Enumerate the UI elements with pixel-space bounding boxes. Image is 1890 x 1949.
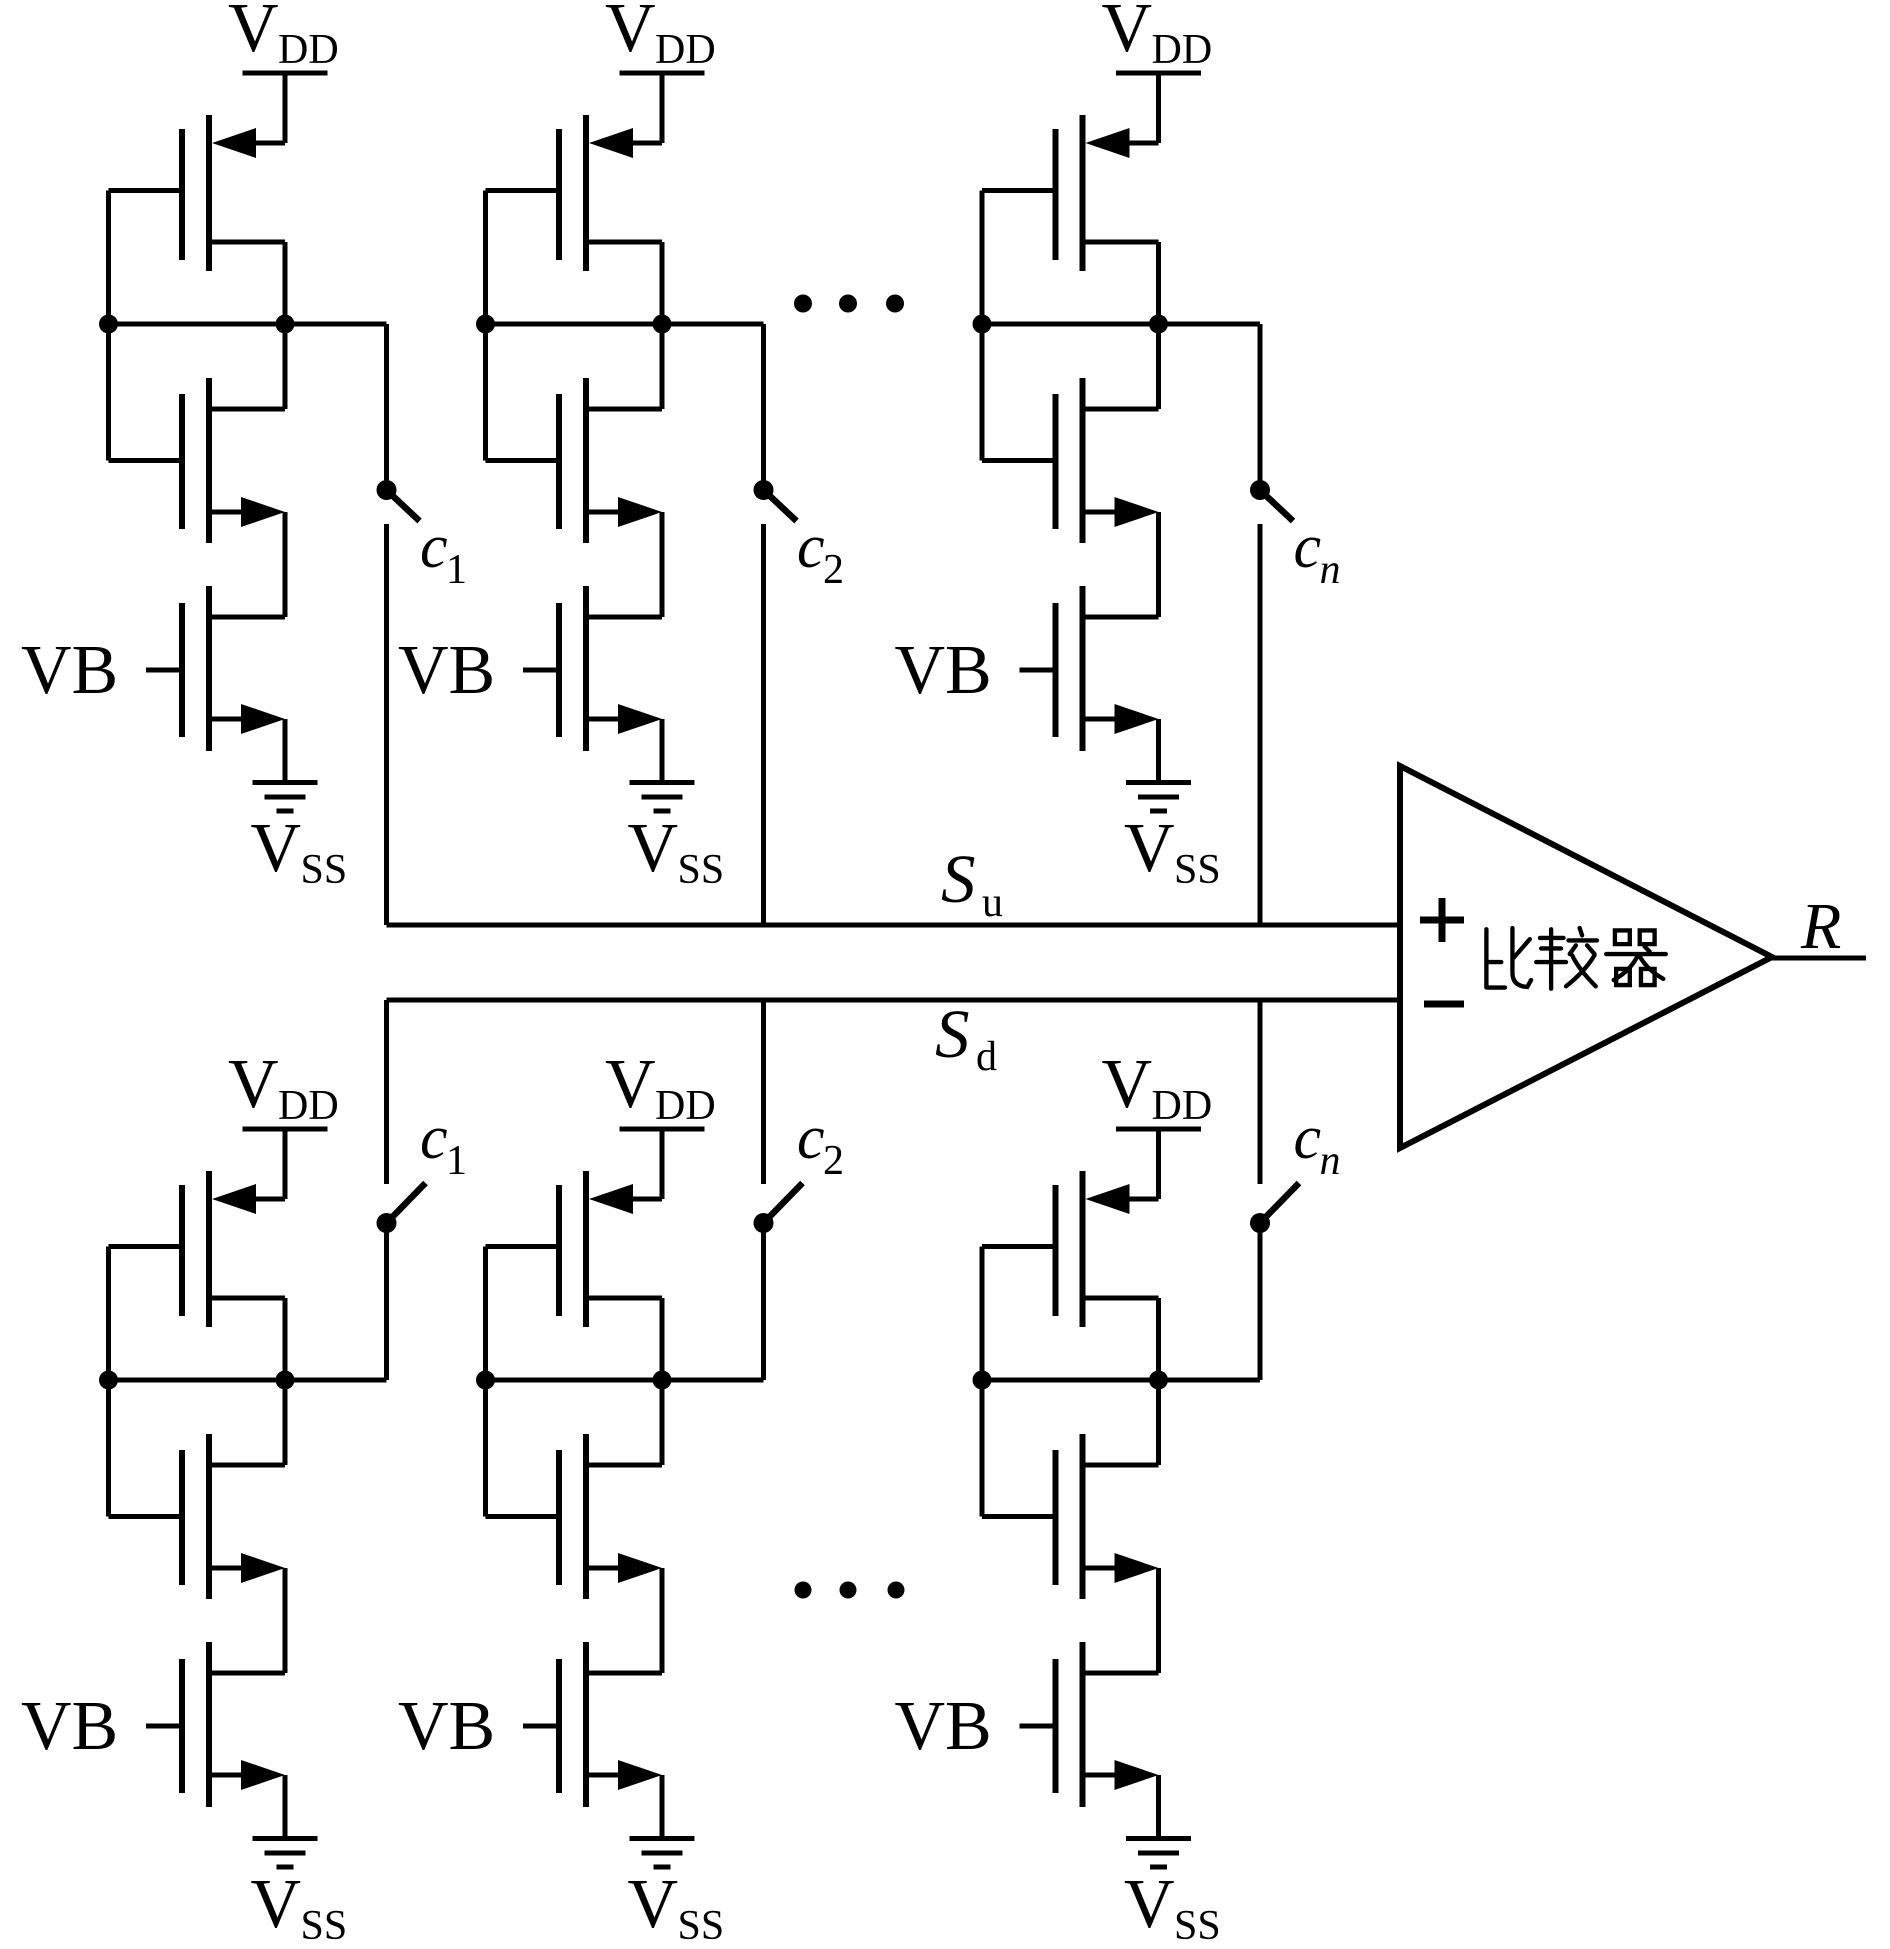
svg-text:SS: SS: [1174, 847, 1221, 893]
wire PMOS drain vertical (cell 3): [1156, 242, 1161, 409]
wire source to ground (cell 5): [660, 1775, 665, 1838]
VSS ground label (cell 5): [628, 1866, 725, 1949]
svg-text:VB: VB: [895, 1688, 992, 1765]
wire node row (cell 1): [109, 322, 387, 327]
VDD supply bar (cell 4): [243, 1127, 328, 1132]
NMOS bias transistor lower (cell 4): [182, 1642, 285, 1807]
wire source to ground (cell 1): [283, 719, 288, 782]
wire comparator output R: [1770, 956, 1866, 961]
wire VDD stem (cell 3): [1156, 73, 1161, 143]
comparator (op-amp triangle): [1400, 766, 1772, 1148]
wire switch to Su bus (cell 3): [1258, 524, 1263, 925]
wire PMOS gate-drain left vertical (cell 1): [106, 191, 111, 461]
svg-text:V: V: [1124, 810, 1175, 887]
svg-text:SS: SS: [301, 1903, 348, 1949]
ground symbol (cell 2): [630, 783, 695, 812]
junction dot right (cell 1): [276, 315, 295, 334]
wire node row (cell 3): [982, 322, 1260, 327]
wire VB gate lead (cell 2): [523, 668, 559, 673]
wire switch to Sd bus (cell 5): [761, 1000, 766, 1184]
VDD power label (cell 2): [605, 0, 716, 73]
svg-text:u: u: [982, 880, 1003, 926]
svg-text:DD: DD: [278, 27, 339, 73]
svg-text:n: n: [1320, 547, 1341, 593]
wire PMOS drain vertical (cell 2): [660, 242, 665, 409]
svg-text:2: 2: [823, 547, 844, 593]
NMOS cascode transistor upper (cell 5): [486, 1434, 663, 1599]
VSS ground label (cell 1): [251, 810, 348, 893]
svg-text:c: c: [797, 1104, 825, 1172]
svg-text:S: S: [935, 996, 970, 1072]
svg-text:VB: VB: [398, 1688, 495, 1765]
NMOS bias transistor lower (cell 6): [1056, 1642, 1159, 1807]
VDD power label (cell 5): [605, 1046, 716, 1129]
ground symbol (cell 4): [253, 1839, 318, 1868]
svg-text:V: V: [251, 810, 302, 887]
junction dot left (cell 4): [99, 1371, 118, 1390]
wire PMOS gate-drain left vertical (cell 6): [980, 1247, 985, 1517]
ground symbol (cell 6): [1126, 1839, 1191, 1868]
VDD supply bar (cell 6): [1116, 1127, 1201, 1132]
wire PMOS drain vertical (cell 5): [660, 1298, 665, 1465]
svg-text:c: c: [420, 513, 448, 581]
junction dot right (cell 6): [1149, 1371, 1168, 1390]
svg-text:V: V: [1124, 1866, 1175, 1943]
comparator text 比较器 (char 器): [1606, 930, 1666, 985]
PMOS transistor (cell 1): [109, 115, 286, 271]
PMOS transistor (cell 3): [982, 115, 1159, 271]
node label cn (cell 6): [1294, 1104, 1341, 1184]
ground symbol (cell 5): [630, 1839, 695, 1868]
wire VDD stem (cell 6): [1156, 1129, 1161, 1199]
NMOS bias transistor lower (cell 1): [182, 586, 285, 751]
svg-text:V: V: [1102, 0, 1153, 67]
wire source to ground (cell 4): [283, 1775, 288, 1838]
switch c1 lower bank (cell 4): [377, 1183, 426, 1380]
VDD power label (cell 4): [228, 1046, 339, 1129]
junction dot right (cell 4): [276, 1371, 295, 1390]
wire source to ground (cell 6): [1156, 1775, 1161, 1838]
wire PMOS drain vertical (cell 6): [1156, 1298, 1161, 1465]
svg-text:VB: VB: [21, 1688, 118, 1765]
comparator text 比较器 (char 比): [1486, 928, 1531, 988]
svg-text:1: 1: [446, 547, 467, 593]
node label c2 (cell 5): [797, 1104, 844, 1184]
svg-text:SS: SS: [301, 847, 348, 893]
wire VDD stem (cell 4): [283, 1129, 288, 1199]
wire VB gate lead (cell 6): [1020, 1724, 1056, 1729]
VSS ground label (cell 6): [1124, 1866, 1221, 1949]
wire between cascode transistors (cell 6): [1156, 1568, 1161, 1673]
ground symbol (cell 3): [1126, 783, 1191, 812]
wire VDD stem (cell 5): [660, 1129, 665, 1199]
switch cn upper bank (cell 3): [1250, 324, 1293, 521]
junction dot right (cell 5): [653, 1371, 672, 1390]
wire switch to Sd bus (cell 4): [384, 1000, 389, 1184]
svg-text:V: V: [605, 1046, 656, 1123]
wire between cascode transistors (cell 2): [660, 512, 665, 617]
junction dot left (cell 3): [973, 315, 992, 334]
svg-text:V: V: [228, 0, 279, 67]
node label cn (cell 3): [1294, 513, 1341, 593]
wire switch to Su bus (cell 1): [384, 524, 389, 925]
wire PMOS drain vertical (cell 1): [283, 242, 288, 409]
PMOS transistor (cell 6): [982, 1171, 1159, 1327]
svg-text:R: R: [1800, 890, 1841, 963]
wire between cascode transistors (cell 1): [283, 512, 288, 617]
VDD supply bar (cell 1): [243, 71, 328, 76]
svg-text:SS: SS: [1174, 1903, 1221, 1949]
NMOS cascode transistor upper (cell 4): [109, 1434, 286, 1599]
svg-text:2: 2: [823, 1138, 844, 1184]
svg-text:V: V: [251, 1866, 302, 1943]
NMOS cascode transistor upper (cell 6): [982, 1434, 1159, 1599]
NMOS bias transistor lower (cell 3): [1056, 586, 1159, 751]
wire node row (cell 6): [982, 1378, 1260, 1383]
NMOS bias transistor lower (cell 5): [559, 1642, 662, 1807]
VDD power label (cell 6): [1102, 1046, 1213, 1129]
junction dot right (cell 2): [653, 315, 672, 334]
svg-text:S: S: [941, 841, 976, 917]
VDD supply bar (cell 2): [620, 71, 705, 76]
ellipsis dots bottom row: [795, 1582, 905, 1599]
svg-text:c: c: [1294, 1104, 1322, 1172]
wire node row (cell 2): [486, 322, 764, 327]
wire VB gate lead (cell 4): [146, 1724, 182, 1729]
svg-text:VB: VB: [398, 632, 495, 709]
wire PMOS gate-drain left vertical (cell 2): [483, 191, 488, 461]
comparator text 比较器 (char 较): [1536, 928, 1597, 989]
svg-text:V: V: [628, 810, 679, 887]
wire PMOS drain vertical (cell 4): [283, 1298, 288, 1465]
VDD supply bar (cell 5): [620, 1127, 705, 1132]
net label Su: [941, 841, 1003, 926]
comparator + input mark: [1420, 898, 1464, 942]
VSS ground label (cell 2): [628, 810, 725, 893]
svg-text:V: V: [628, 1866, 679, 1943]
wire between cascode transistors (cell 5): [660, 1568, 665, 1673]
switch c2 lower bank (cell 5): [754, 1183, 803, 1380]
wire PMOS gate-drain left vertical (cell 4): [106, 1247, 111, 1517]
wire source to ground (cell 3): [1156, 719, 1161, 782]
svg-text:SS: SS: [678, 847, 725, 893]
junction dot left (cell 2): [476, 315, 495, 334]
svg-text:c: c: [1294, 513, 1322, 581]
svg-text:DD: DD: [1152, 27, 1213, 73]
svg-text:DD: DD: [655, 1083, 716, 1129]
svg-text:VB: VB: [21, 632, 118, 709]
NMOS cascode transistor upper (cell 2): [486, 378, 663, 543]
svg-text:c: c: [420, 1104, 448, 1172]
junction dot left (cell 1): [99, 315, 118, 334]
wire switch to Su bus (cell 2): [761, 524, 766, 925]
ground symbol (cell 1): [253, 783, 318, 812]
ellipsis dots top row: [794, 295, 904, 313]
VDD supply bar (cell 3): [1116, 71, 1201, 76]
comparator - input mark: [1424, 1001, 1464, 1008]
svg-text:d: d: [976, 1034, 997, 1080]
wire VB gate lead (cell 5): [523, 1724, 559, 1729]
wire node row (cell 5): [486, 1378, 764, 1383]
junction dot right (cell 3): [1149, 315, 1168, 334]
wire VDD stem (cell 1): [283, 73, 288, 143]
NMOS cascode transistor upper (cell 1): [109, 378, 286, 543]
wire VDD stem (cell 2): [660, 73, 665, 143]
NMOS bias transistor lower (cell 2): [559, 586, 662, 751]
wire PMOS gate-drain left vertical (cell 3): [980, 191, 985, 461]
wire switch to Sd bus (cell 6): [1258, 1000, 1263, 1184]
wire VB gate lead (cell 3): [1020, 668, 1056, 673]
wire PMOS gate-drain left vertical (cell 5): [483, 1247, 488, 1517]
switch c2 upper bank (cell 2): [754, 324, 797, 521]
svg-text:c: c: [797, 513, 825, 581]
svg-text:VB: VB: [895, 632, 992, 709]
switch cn lower bank (cell 6): [1250, 1183, 1299, 1380]
NMOS cascode transistor upper (cell 3): [982, 378, 1159, 543]
svg-text:DD: DD: [1152, 1083, 1213, 1129]
junction dot left (cell 5): [476, 1371, 495, 1390]
wire source to ground (cell 2): [660, 719, 665, 782]
node label c1 (cell 4): [420, 1104, 467, 1184]
VSS ground label (cell 4): [251, 1866, 348, 1949]
wire between cascode transistors (cell 3): [1156, 512, 1161, 617]
net label Sd: [935, 996, 997, 1080]
wire Sd bus: [387, 998, 1401, 1003]
switch c1 upper bank (cell 1): [377, 324, 420, 521]
VDD power label (cell 3): [1102, 0, 1213, 73]
svg-text:V: V: [228, 1046, 279, 1123]
PMOS transistor (cell 2): [486, 115, 663, 271]
svg-text:V: V: [605, 0, 656, 67]
PMOS transistor (cell 5): [486, 1171, 663, 1327]
wire Su bus: [387, 923, 1401, 928]
VDD power label (cell 1): [228, 0, 339, 73]
junction dot left (cell 6): [973, 1371, 992, 1390]
svg-text:1: 1: [446, 1138, 467, 1184]
wire between cascode transistors (cell 4): [283, 1568, 288, 1673]
VSS ground label (cell 3): [1124, 810, 1221, 893]
node label c2 (cell 2): [797, 513, 844, 593]
PMOS transistor (cell 4): [109, 1171, 286, 1327]
svg-text:n: n: [1320, 1138, 1341, 1184]
svg-text:DD: DD: [655, 27, 716, 73]
svg-text:SS: SS: [678, 1903, 725, 1949]
svg-text:V: V: [1102, 1046, 1153, 1123]
svg-text:DD: DD: [278, 1083, 339, 1129]
wire VB gate lead (cell 1): [146, 668, 182, 673]
node label c1 (cell 1): [420, 513, 467, 593]
wire node row (cell 4): [109, 1378, 387, 1383]
